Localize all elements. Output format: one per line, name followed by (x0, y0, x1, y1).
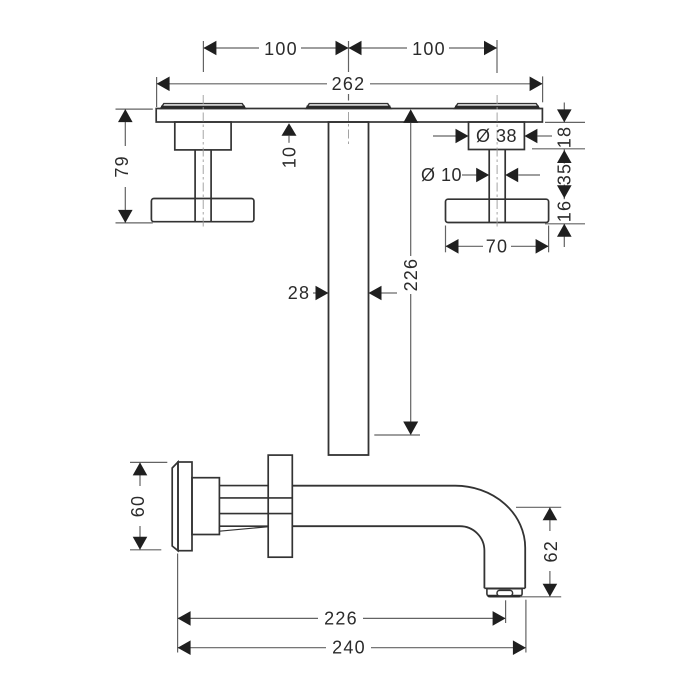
spout column (front view) (329, 122, 369, 455)
wall plate (156, 109, 542, 123)
right dimension column: extension lines (532, 122, 585, 223)
centerline spout (348, 112, 350, 146)
svg-text:18: 18 (554, 126, 574, 148)
extension lines for 262 (157, 76, 543, 107)
svg-text:100: 100 (412, 39, 446, 59)
dimension 28 (spout width) (288, 283, 397, 303)
set screw wedge (219, 527, 267, 531)
dimension 35 (554, 149, 574, 199)
left handle escutcheon top (161, 104, 246, 109)
wall flange outer disc (172, 462, 219, 551)
extension lines for 62 (516, 507, 561, 597)
extension lines for 79 (116, 109, 153, 223)
dimension 60 (128, 462, 148, 549)
dimension 240 (178, 638, 526, 658)
svg-text:226: 226 (401, 258, 421, 292)
escutcheon (side view) (268, 455, 292, 557)
supply pipes between body and escutcheon (219, 486, 292, 532)
extension lines for 60 (130, 462, 167, 549)
dimension 10 (plate thickness) (280, 123, 300, 168)
svg-text:16: 16 (554, 200, 574, 222)
left handle valve body (151, 122, 254, 222)
right handle stem (488, 150, 490, 223)
dimension 226 (spout length, vertical) (374, 109, 421, 435)
inner pipe (219, 497, 292, 499)
svg-text:35: 35 (554, 163, 574, 185)
svg-text:62: 62 (541, 540, 561, 562)
svg-text:79: 79 (112, 155, 132, 177)
dimension 262 (157, 74, 543, 94)
aerator (487, 589, 522, 597)
svg-text:10: 10 (280, 146, 300, 168)
dimension 70 (446, 236, 549, 256)
svg-text:240: 240 (332, 638, 366, 658)
dimension 100 (right) (349, 39, 498, 59)
dimension 226 (reach) (178, 608, 506, 628)
dimension 16 (554, 200, 574, 247)
extension lines for 70 (446, 226, 549, 253)
dimension 79 (112, 109, 133, 223)
svg-text:70: 70 (486, 236, 508, 256)
dimension 62 (539, 507, 561, 597)
mounting body (192, 478, 219, 535)
extension lines for 100/100 (203, 40, 497, 101)
left handle stem (194, 150, 196, 222)
extension lines for 226/240 (178, 554, 526, 653)
svg-text:226: 226 (324, 608, 358, 628)
right handle escutcheon top (455, 104, 540, 109)
svg-text:262: 262 (332, 74, 366, 94)
right handle cross bar (446, 199, 549, 222)
left handle cross bar (151, 199, 254, 222)
svg-text:100: 100 (264, 39, 298, 59)
escutcheon dark bands (161, 106, 539, 109)
dimension 100 (left) (203, 39, 348, 59)
wall flange rim (172, 462, 178, 551)
center escutcheon top (306, 104, 391, 109)
svg-text:Ø 10: Ø 10 (421, 165, 462, 185)
right handle valve body (446, 122, 549, 223)
centerline right handle (496, 95, 498, 228)
svg-text:Ø 38: Ø 38 (476, 126, 517, 146)
svg-text:28: 28 (288, 283, 310, 303)
spout tube with 90° bend (292, 486, 525, 589)
svg-text:60: 60 (128, 495, 148, 517)
dimension Ø10 (stem) (421, 165, 540, 185)
centerline left handle (203, 95, 497, 228)
dimension 18 (554, 103, 574, 149)
aerator inner ring (497, 590, 513, 596)
dimension Ø38 (leader with text inside body) (433, 126, 552, 146)
